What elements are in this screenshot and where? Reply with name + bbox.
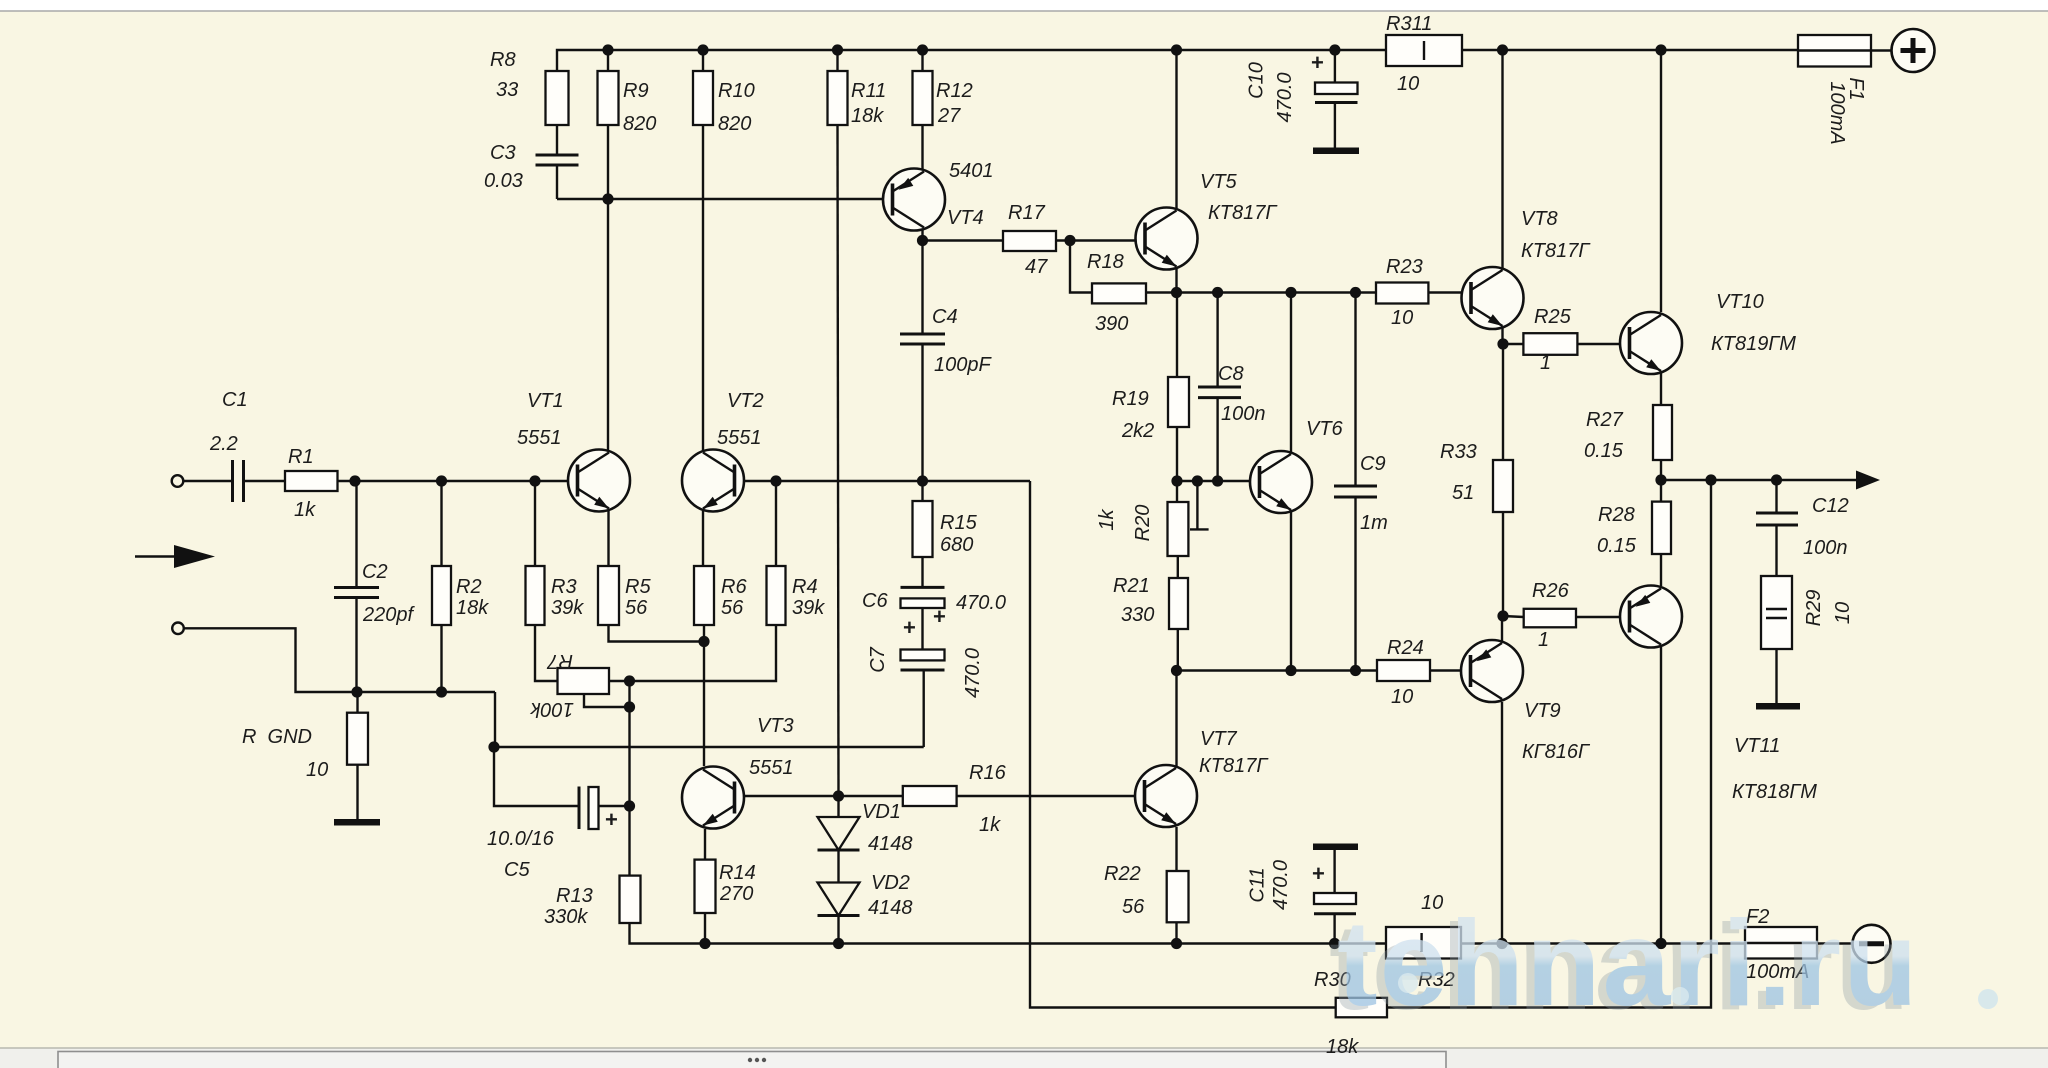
svg-text:0.15: 0.15: [1584, 440, 1624, 462]
junction dot C5 right: [624, 800, 635, 811]
resistor R11 18k: [828, 71, 848, 125]
wire R33 to VT9 node: [1502, 512, 1504, 616]
svg-text:C4: C4: [932, 306, 958, 328]
wire VT6 emitter: [1290, 512, 1292, 671]
svg-text:0.03: 0.03: [484, 170, 523, 192]
svg-text:5401: 5401: [949, 160, 994, 182]
svg-text:VT8: VT8: [1521, 208, 1558, 230]
svg-text:R4: R4: [792, 576, 818, 598]
resistor R23 10: [1376, 283, 1428, 304]
wire output row: [1661, 479, 1862, 481]
svg-text:56: 56: [625, 597, 648, 619]
svg-text:R311: R311: [1386, 13, 1432, 35]
svg-text:27: 27: [937, 105, 961, 127]
wire output to C12: [1775, 480, 1777, 513]
svg-text:R2: R2: [456, 576, 482, 598]
wire VT10 collector: [1660, 50, 1662, 312]
ground under R29: [1756, 703, 1800, 710]
svg-text:R21: R21: [1113, 575, 1150, 597]
svg-text:470.0: 470.0: [956, 592, 1006, 614]
svg-text:VT4: VT4: [947, 207, 984, 229]
svg-text:100n: 100n: [1803, 537, 1848, 559]
fuse F2 100mA: [1745, 927, 1817, 959]
wire ground to C11: [1333, 850, 1335, 893]
junction dots R7: [624, 675, 635, 686]
wire R23 to VT8 base: [1428, 291, 1470, 293]
svg-text:R24: R24: [1387, 637, 1424, 659]
wire to R13 top: [628, 806, 630, 876]
svg-text:КТ817Г: КТ817Г: [1208, 202, 1278, 224]
wire C8 bottom lead: [1216, 398, 1218, 481]
capacitor C8 100n: [1198, 387, 1241, 398]
wire R25 to VT10 base: [1577, 343, 1630, 345]
wire R20 wiper vertical: [1196, 481, 1198, 529]
transistor VT9 KG816G: [1461, 640, 1523, 702]
wire to VD1 anode: [837, 796, 839, 817]
resistor R GND 10: [347, 713, 368, 765]
wire VT5 collector: [1175, 50, 1177, 210]
wire to C4 top: [921, 241, 923, 335]
wire VT4 collector to R17: [923, 239, 1004, 241]
transistor VT5 KT817G: [1136, 208, 1198, 270]
transistor VT11 KT818GM: [1620, 586, 1682, 648]
svg-text:R GND: R GND: [242, 726, 312, 748]
svg-text:220pf: 220pf: [362, 604, 415, 626]
resistor R33 51: [1493, 460, 1513, 512]
resistor R12 27: [913, 71, 933, 125]
wire to R4 top: [775, 481, 777, 566]
input signal arrow: [174, 545, 215, 568]
svg-text:R5: R5: [625, 576, 651, 598]
capacitor C9 1m: [1334, 486, 1377, 497]
svg-text:R12: R12: [936, 80, 973, 102]
wire second input terminal to bias bus: [184, 628, 496, 692]
potentiometer R7 100k: [558, 668, 610, 694]
svg-text:КГ816Г: КГ816Г: [1522, 741, 1591, 763]
wire R12 top lead: [921, 50, 923, 71]
wire VT8 emitter lead: [1501, 326, 1503, 344]
wire R4 bottom to R7 right: [609, 625, 776, 681]
wire to VT3 collector: [703, 642, 705, 767]
svg-text:10: 10: [1832, 602, 1854, 624]
wire C12 to R29: [1775, 525, 1777, 576]
wire VT6 collector: [1290, 293, 1292, 453]
capacitor C12 100n: [1756, 513, 1798, 525]
wire R11 to VD1 node: [838, 125, 839, 796]
svg-text:R17: R17: [1008, 202, 1046, 224]
wire R20 wiper tick: [1190, 528, 1209, 530]
svg-text:КТ819ГМ: КТ819ГМ: [1711, 333, 1796, 355]
svg-text:+: +: [903, 615, 916, 640]
wire R7 wiper: [584, 694, 630, 707]
wire R5 bottom to R6 node: [609, 625, 705, 642]
svg-text:10: 10: [1391, 686, 1413, 708]
svg-text:470.0: 470.0: [1274, 72, 1296, 122]
junction dots R17 row: [917, 235, 928, 246]
wire R22 to negative bus: [1175, 922, 1177, 943]
wire to C5 left: [494, 747, 579, 806]
svg-text:C2: C2: [362, 561, 388, 583]
svg-text:2k2: 2k2: [1121, 420, 1154, 442]
resistor R10 820: [693, 71, 713, 125]
svg-text:18k: 18k: [456, 597, 489, 619]
wire R6 bottom: [703, 625, 705, 642]
ground under C10: [1313, 148, 1359, 155]
svg-text:C10: C10: [1246, 62, 1268, 99]
capacitor C2 220pf: [334, 588, 379, 598]
wire R GND to ground: [356, 765, 358, 819]
transistor VT10 KT819GM: [1620, 312, 1682, 374]
svg-text:56: 56: [721, 597, 744, 619]
wire VD2 to negative bus: [837, 916, 839, 944]
wire R11 top lead: [836, 50, 838, 71]
svg-text:10: 10: [1391, 307, 1413, 329]
wire to R3 top: [534, 481, 536, 566]
output arrow: [1856, 471, 1880, 490]
wire R9 top lead: [607, 50, 609, 71]
wire R14 to negative bus: [704, 913, 706, 944]
wire F1 to plus terminal: [1871, 49, 1892, 51]
svg-text:VT5: VT5: [1200, 171, 1238, 193]
resistor R30 18k: [1336, 998, 1387, 1018]
wire C5 right lead: [598, 805, 630, 807]
svg-text:R19: R19: [1112, 388, 1149, 410]
svg-text:100mA: 100mA: [1826, 81, 1848, 144]
wire C3 bottom lead: [556, 165, 558, 199]
wire VT5 emitter lead: [1175, 267, 1177, 293]
junction dots negative bus: [699, 938, 710, 949]
capacitor C10 470.0: [1315, 83, 1358, 103]
svg-text:+: +: [605, 807, 618, 832]
svg-text:R7: R7: [547, 650, 573, 672]
wire to R2 top: [440, 481, 442, 566]
svg-text:+: +: [933, 604, 946, 629]
capacitor C6 470.0: [901, 587, 945, 608]
svg-text:1m: 1m: [1360, 512, 1388, 534]
wire R28 to VT11 emitter: [1660, 554, 1662, 586]
wire bias bus corner down: [494, 692, 496, 747]
resistor R3 39k: [526, 566, 545, 625]
wire VT2 base to feedback column: [736, 480, 1031, 482]
resistor R28 0.15: [1652, 502, 1671, 554]
capacitor C5 10.0/16: [579, 787, 599, 830]
resistor R27 0.15: [1653, 405, 1672, 460]
transistor VT4 5401: [883, 169, 945, 231]
svg-text:VT7: VT7: [1200, 728, 1238, 750]
wire C7 bottom lead: [923, 670, 925, 747]
wire R29 to ground: [1775, 649, 1777, 703]
input terminal 1: [172, 475, 184, 487]
svg-text:C8: C8: [1218, 363, 1244, 385]
transistor VT1 5551: [568, 450, 630, 512]
svg-text:R26: R26: [1532, 580, 1570, 602]
svg-text:R33: R33: [1440, 441, 1477, 463]
svg-text:330: 330: [1121, 604, 1154, 626]
resistor R16 1k: [903, 786, 957, 806]
resistor R22 56: [1167, 871, 1189, 922]
diode VD1 4148: [818, 817, 860, 850]
wire R26 to VT11 base: [1576, 616, 1630, 618]
svg-text:56: 56: [1122, 896, 1145, 918]
junction dots top rail: [602, 44, 613, 55]
wire to VT7 collector: [1175, 671, 1177, 691]
svg-text:R11: R11: [851, 80, 886, 102]
wire R20 to R21: [1177, 556, 1179, 578]
resistor R26 1: [1524, 609, 1576, 628]
resistor R24 10: [1377, 660, 1430, 681]
wire C11 to negative bus: [1333, 914, 1335, 944]
wire to R26: [1503, 616, 1524, 617]
svg-text:100pF: 100pF: [934, 354, 992, 376]
wire VT11 collector to negative bus: [1660, 647, 1662, 944]
resistor R8 33: [546, 71, 569, 125]
svg-text:R29: R29: [1803, 590, 1825, 627]
svg-text:4148: 4148: [868, 833, 913, 855]
svg-text:51: 51: [1452, 482, 1474, 504]
wire C2 to ground bus node: [355, 598, 357, 693]
svg-text:33: 33: [496, 79, 518, 101]
svg-text:VT9: VT9: [1524, 700, 1561, 722]
resistor R311 10: [1386, 35, 1462, 66]
svg-text:VT2: VT2: [727, 390, 764, 412]
svg-text:18k: 18k: [851, 105, 884, 127]
svg-text:47: 47: [1025, 256, 1048, 278]
wire top positive rail left segment: [557, 50, 1386, 71]
svg-text:680: 680: [940, 534, 973, 556]
svg-text:1k: 1k: [1096, 508, 1118, 530]
wire VT2 emitter to R6: [702, 509, 704, 566]
svg-text:VT6: VT6: [1306, 418, 1344, 440]
wire negative bus: [630, 923, 1746, 944]
wire C9 bottom lead: [1354, 497, 1356, 671]
wire R2 bottom: [440, 625, 442, 692]
svg-text:R13: R13: [556, 885, 593, 907]
svg-text:10.0/16: 10.0/16: [487, 828, 555, 850]
wire to R15 top: [921, 481, 923, 501]
svg-text:C9: C9: [1360, 453, 1386, 475]
wire VT3 emitter to R14: [704, 829, 706, 860]
svg-text:R10: R10: [718, 80, 755, 102]
wire VT7 collector lead: [1175, 690, 1177, 766]
wire feedback down and left segment: [1030, 481, 1336, 1008]
svg-text:1k: 1k: [979, 814, 1001, 836]
wire R19 bottom: [1176, 427, 1178, 481]
wire R18 left elbow: [1070, 241, 1092, 293]
wire C10 top lead: [1334, 50, 1336, 83]
wire node to R16: [839, 795, 903, 797]
wire C8 top lead: [1216, 293, 1218, 388]
wire R12 to VT4 emitter: [921, 125, 923, 169]
junction dot VT9 emitter R26: [1497, 610, 1508, 621]
minus supply terminal: [1853, 925, 1891, 963]
svg-text:820: 820: [623, 113, 656, 135]
svg-text:R20: R20: [1132, 505, 1154, 542]
svg-text:470.0: 470.0: [1270, 860, 1292, 910]
wire VT7 emitter to R22: [1175, 827, 1177, 871]
resistor R29 10: [1761, 576, 1792, 649]
wire feedback right segment up to output: [1387, 480, 1711, 1008]
wire input terminal to C1: [183, 480, 232, 482]
wire bias row to R24: [1177, 669, 1378, 671]
svg-text:R3: R3: [551, 576, 577, 598]
diode VD2 4148: [818, 883, 860, 916]
wire VT4 base line: [557, 198, 892, 200]
wire VD1 to VD2: [837, 850, 839, 883]
capacitor C1 2.2: [233, 460, 244, 502]
transistor VT8 KT817G: [1462, 267, 1524, 329]
wire VT1 emitter to R5: [607, 509, 609, 566]
svg-text:100n: 100n: [1221, 403, 1266, 425]
svg-text:R22: R22: [1104, 863, 1141, 885]
svg-text:390: 390: [1095, 313, 1128, 335]
wire R1 to VT1 base: [338, 480, 578, 482]
resistor R5 56: [598, 566, 619, 625]
svg-text:VT10: VT10: [1716, 291, 1764, 313]
plus supply terminal: [1892, 29, 1935, 72]
transistor VT7 KT817G: [1135, 765, 1197, 827]
wire driver rail: [1146, 291, 1376, 293]
wire R8 to C3: [556, 125, 558, 155]
wire F2 to minus terminal: [1817, 942, 1853, 944]
resistor R17 47: [1003, 231, 1056, 251]
junction dot VT4 base / R9 column: [602, 193, 613, 204]
wire R10 top lead: [702, 50, 704, 71]
svg-text:R23: R23: [1386, 256, 1423, 278]
svg-text:КТ817Г: КТ817Г: [1521, 240, 1591, 262]
junction dots driver rail: [1171, 287, 1182, 298]
svg-text:18k: 18k: [1326, 1036, 1359, 1058]
svg-text:39k: 39k: [792, 597, 825, 619]
svg-text:+: +: [1312, 861, 1325, 886]
resistor R15 680: [913, 501, 933, 557]
resistor R2 18k: [432, 566, 451, 625]
junction dots output row: [1655, 474, 1666, 485]
wire VT8 emitter to R33: [1502, 344, 1504, 460]
wire VT10 emitter to R27: [1660, 373, 1662, 405]
junction dot C5 column top: [488, 741, 499, 752]
svg-text:C5: C5: [504, 859, 530, 881]
svg-text:R6: R6: [721, 576, 747, 598]
resistor R6 56: [694, 566, 714, 625]
wire R19 row to VT6 base: [1177, 480, 1260, 482]
svg-text:5551: 5551: [749, 757, 794, 779]
junction dots ground bias bus: [351, 686, 362, 697]
svg-text:C1: C1: [222, 389, 248, 411]
capacitor C7 470.0: [901, 650, 945, 671]
svg-text:VT1: VT1: [527, 390, 564, 412]
svg-text:R8: R8: [490, 49, 516, 71]
junction dots input row: [349, 475, 360, 486]
transistor VT2 5551: [682, 450, 744, 512]
svg-text:470.0: 470.0: [962, 648, 984, 698]
svg-text:39k: 39k: [551, 597, 584, 619]
svg-text:R14: R14: [719, 862, 756, 884]
wire to R25: [1503, 343, 1523, 345]
svg-text:330k: 330k: [544, 906, 588, 928]
junction dots bias row: [1171, 665, 1182, 676]
wire VT8 collector: [1501, 50, 1503, 270]
capacitor C11 470.0: [1314, 893, 1356, 914]
junction dots R19 R20 C8 row: [1171, 475, 1182, 486]
svg-text:R27: R27: [1586, 409, 1624, 431]
wire R24 to VT9 base: [1430, 669, 1471, 671]
svg-text:10: 10: [306, 759, 328, 781]
svg-text:R28: R28: [1598, 504, 1635, 526]
wire R17 to VT5 base: [1056, 239, 1145, 241]
svg-text:R15: R15: [940, 512, 978, 534]
resistor R25 1: [1523, 333, 1577, 355]
wire top positive rail right segment: [1462, 49, 1798, 51]
svg-text:4148: 4148: [868, 897, 913, 919]
ground under R GND: [334, 819, 380, 826]
wire C4 bottom to input row: [921, 344, 923, 481]
wire R27 to output node: [1660, 460, 1662, 480]
transistor VT6: [1250, 451, 1312, 513]
wire VT9 collector to negative bus: [1501, 702, 1503, 944]
wire R9 to VT1 collector: [607, 125, 609, 450]
junction dot VT8 emitter: [1497, 338, 1508, 349]
wire to R20 top: [1176, 481, 1178, 502]
wire output to R28: [1660, 480, 1662, 502]
svg-text:C7: C7: [867, 646, 889, 672]
svg-text:C12: C12: [1812, 495, 1849, 517]
svg-text:1: 1: [1538, 629, 1549, 651]
svg-text:5551: 5551: [717, 427, 762, 449]
svg-text:5551: 5551: [517, 427, 562, 449]
wire C6 to C7: [921, 608, 923, 650]
watermark tehnari.ru: [1329, 895, 1998, 1035]
svg-text:0.15: 0.15: [1597, 535, 1637, 557]
svg-text:10: 10: [1397, 73, 1419, 95]
svg-text:C11: C11: [1247, 867, 1269, 902]
wire R10 to VT2 collector: [702, 125, 704, 452]
svg-text:VD1: VD1: [862, 801, 901, 823]
svg-text:R25: R25: [1534, 306, 1572, 328]
svg-text:+: +: [1311, 50, 1324, 75]
svg-text:R1: R1: [288, 446, 314, 468]
resistor R9 820: [598, 71, 619, 125]
resistor R14 270: [695, 860, 716, 913]
resistor R19 2k2: [1168, 377, 1189, 427]
svg-text:R16: R16: [969, 762, 1007, 784]
svg-text:VD2: VD2: [871, 872, 910, 894]
wire VT3 base to VD1 node: [737, 795, 839, 797]
wire R16 to VT7 base: [957, 795, 1145, 797]
wire C7 return line: [494, 746, 924, 748]
svg-text:КТ818ГМ: КТ818ГМ: [1732, 781, 1817, 803]
wire C9 top lead: [1354, 293, 1356, 487]
transistor VT3 5551: [682, 767, 744, 829]
fuse F1 100mA: [1798, 35, 1871, 67]
resistor R21 330: [1169, 578, 1188, 629]
wire VT4 collector lead: [921, 230, 923, 241]
svg-text:820: 820: [718, 113, 751, 135]
resistor R1 1k: [285, 471, 338, 491]
svg-text:VT3: VT3: [757, 715, 794, 737]
wire R21 bottom: [1177, 629, 1179, 671]
wire to R GND: [356, 692, 358, 713]
ground above C11: [1313, 844, 1358, 851]
svg-text:100k: 100k: [530, 698, 574, 720]
svg-text:C6: C6: [862, 590, 888, 612]
wire to R19 top: [1176, 293, 1178, 378]
svg-text:tehnari.ru: tehnari.ru: [1337, 895, 1920, 1031]
wire C1 to R1: [243, 480, 285, 482]
wire input arrow lead: [135, 555, 174, 557]
junction dot R5 R6: [698, 636, 709, 647]
potentiometer R20 1k: [1168, 502, 1189, 556]
svg-text:C3: C3: [490, 142, 516, 164]
